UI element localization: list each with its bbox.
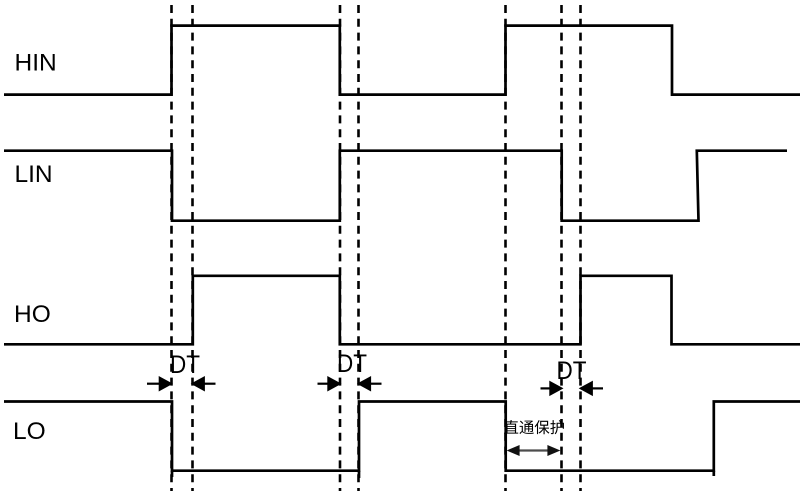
svg-text:DT: DT [557,357,587,385]
svg-text:HIN: HIN [15,50,57,77]
svg-text:LIN: LIN [15,161,53,188]
svg-text:LO: LO [13,418,46,445]
svg-text:DT: DT [337,350,367,378]
svg-text:HO: HO [14,301,51,328]
svg-text:DT: DT [170,351,200,379]
